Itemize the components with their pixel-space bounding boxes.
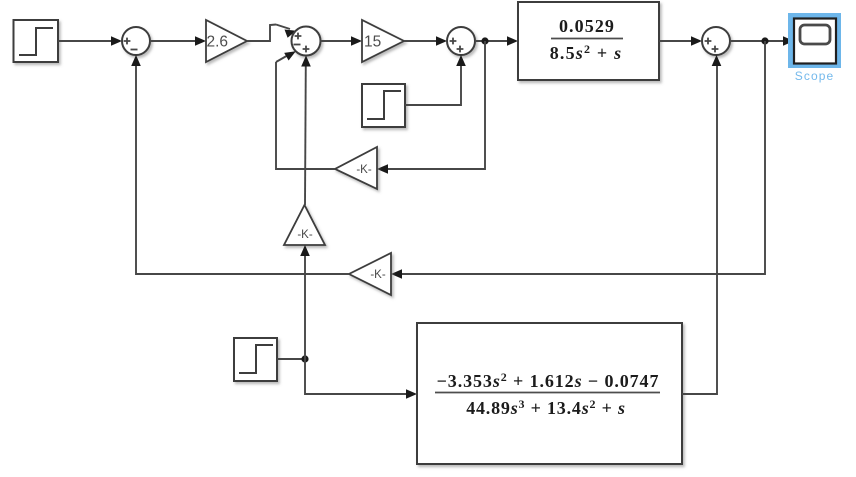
- step block Step1 (middle source): [362, 84, 405, 127]
- node junction dot after Sum4: [761, 37, 768, 44]
- node junction dot after Sum3: [481, 37, 488, 44]
- wire Sum3 to Transfer Fcn 1 (with branch junction): [475, 36, 518, 46]
- wire Sum4 to Scope (with branch junction): [730, 36, 794, 46]
- wire Sum1 to Gain 2.6: [150, 36, 206, 46]
- wire branch down to Gain -K- 1: [377, 41, 485, 174]
- svg-text:-K-: -K-: [356, 164, 372, 176]
- wire Gain 2.6 to Sum2 (jog up, diagonal into top-left port): [247, 25, 296, 42]
- wire Step to Sum1: [58, 36, 122, 46]
- gain block -K- 2 (up-pointing): [284, 205, 325, 245]
- wire Gain -K- 3 to Sum1 bottom: [131, 55, 349, 274]
- step block Step (top-left source): [14, 20, 59, 62]
- wire Step2 output with branch: [277, 358, 305, 360]
- wire branch up to Gain -K- 2: [300, 245, 310, 359]
- wire Transfer Fcn 1 to Sum4: [659, 36, 702, 46]
- gain block 2.6: [206, 20, 247, 62]
- wire Gain -K- 2 to Sum2 bottom: [301, 56, 311, 206]
- wire Transfer Fcn 2 to Sum4 bottom: [682, 55, 721, 394]
- transfer function block (-3.353s^2+1.612s-0.0747)/(44.89s^3+13.4s^2+s): [417, 323, 682, 464]
- wire Gain -K- 1 to Sum2 lower-left port: [276, 51, 335, 169]
- svg-text:2.6: 2.6: [207, 34, 229, 51]
- svg-text:-K-: -K-: [297, 229, 313, 241]
- step block Step2 (bottom source): [234, 338, 277, 381]
- sum junction Sum1 (+ -): [122, 27, 150, 55]
- svg-text:Scope: Scope: [795, 69, 835, 83]
- transfer function block 0.0529/(8.5s^2+s): [518, 2, 659, 80]
- wire Gain 15 to Sum3: [404, 36, 447, 46]
- svg-text:-K-: -K-: [370, 269, 386, 281]
- svg-text:−3.353s2 + 1.612s − 0.0747: −3.353s2 + 1.612s − 0.0747: [437, 370, 660, 391]
- svg-text:0.0529: 0.0529: [559, 16, 615, 36]
- wire Step1 to Sum3 bottom: [405, 55, 466, 105]
- wire branch down-right to Transfer Fcn 2: [305, 359, 417, 399]
- sum junction Sum3 (+ +): [447, 27, 475, 55]
- wire feedback from junction down to Gain -K- 3: [391, 41, 765, 279]
- sum junction Sum2 (+ - +): [292, 27, 321, 56]
- svg-text:15: 15: [364, 34, 381, 51]
- gain block 15: [362, 20, 404, 62]
- scope block (selected, cyan highlight): [788, 13, 841, 83]
- node junction dot after Step2: [301, 355, 308, 362]
- gain block -K- 1 (left-pointing): [335, 147, 377, 189]
- wire Sum2 to Gain 15: [321, 36, 363, 46]
- svg-text:44.89s3 + 13.4s2 + s: 44.89s3 + 13.4s2 + s: [466, 397, 626, 418]
- sum junction Sum4 (+ +): [702, 27, 730, 55]
- gain block -K- 3 (left-pointing): [349, 253, 391, 295]
